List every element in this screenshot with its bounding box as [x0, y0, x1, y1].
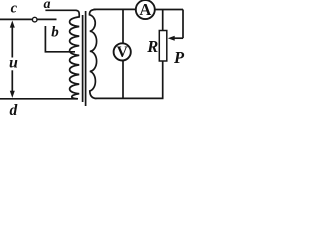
wire secondary bottom rail [95, 97, 164, 99]
rheostat slider arrow P [168, 36, 183, 41]
svg-text:A: A [139, 0, 151, 19]
voltage u arrow (double-headed, between rails) [10, 21, 15, 98]
transformer secondary winding [89, 9, 96, 98]
wire tap a [45, 9, 76, 11]
wire R bottom [162, 61, 164, 98]
ammeter A [136, 0, 155, 19]
wire d (left input bottom rail) [0, 98, 77, 100]
transformer core [83, 11, 86, 106]
wire voltmeter branch lower [122, 61, 124, 99]
svg-text:a: a [44, 0, 51, 12]
wire c (left input top rail) [0, 18, 32, 20]
transformer primary winding [70, 10, 80, 99]
voltmeter V [114, 43, 131, 60]
switch pivot (open circle) [32, 17, 37, 22]
switch blade wire [37, 18, 56, 20]
svg-text:P: P [173, 48, 185, 67]
wire secondary top right segment [155, 9, 183, 11]
svg-text:u: u [9, 55, 18, 72]
wire slider drop (right edge) [182, 10, 184, 39]
wire R top [162, 10, 164, 31]
wire voltmeter branch upper [122, 9, 124, 43]
svg-text:d: d [10, 102, 18, 118]
svg-text:b: b [51, 25, 59, 41]
resistor R body [159, 31, 167, 62]
svg-text:V: V [117, 44, 129, 61]
wire tap b [45, 26, 75, 52]
wire secondary top left segment [94, 8, 136, 10]
svg-text:R: R [146, 37, 158, 56]
svg-text:c: c [11, 1, 18, 17]
